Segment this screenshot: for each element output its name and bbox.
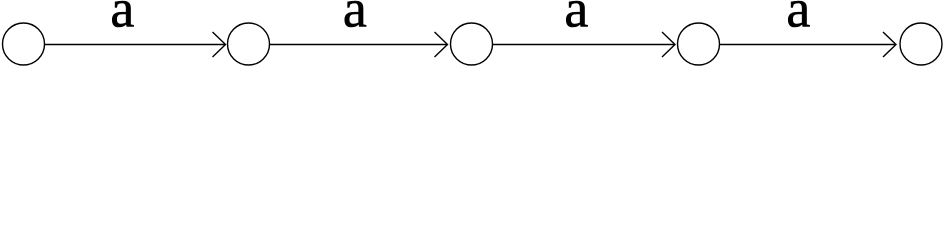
svg-text:a: a: [110, 0, 134, 39]
state q3: [678, 23, 720, 65]
transition arrow q2 to q3: [493, 32, 675, 57]
svg-text:a: a: [564, 0, 588, 39]
transition arrow q0 to q1: [45, 32, 226, 57]
transition arrow q3 to q4: [720, 32, 896, 57]
state q2: [451, 23, 493, 65]
state q1: [228, 23, 270, 65]
svg-text:a: a: [786, 0, 810, 39]
svg-text:a: a: [343, 0, 367, 39]
transition arrow q1 to q2: [270, 32, 448, 57]
state q0: [3, 23, 45, 65]
state q4: [900, 23, 942, 65]
